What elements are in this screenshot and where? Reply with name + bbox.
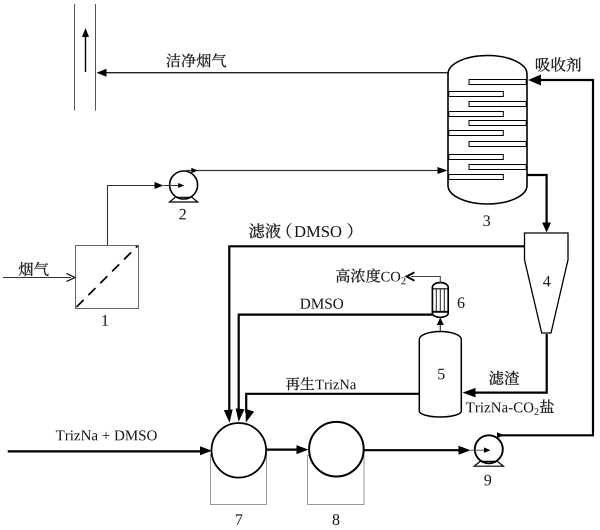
label 9 (484, 475, 491, 486)
wire: regenerated TrizNa from tank 5 to mixer 7 (246, 394, 420, 423)
wire: absorber 3 bottom to cyclone 4 (527, 175, 551, 233)
wire: fresh TrizNa+DMSO feed to mixer 7 (8, 446, 212, 455)
pump 9 base (474, 461, 503, 466)
wire: DMSO return from 6 to mixer 7 (236, 315, 433, 422)
absorber 3 internal baffles (449, 80, 526, 180)
wire: absorbent feed into absorber top (528, 75, 593, 436)
tank 5 (419, 332, 461, 418)
label 1 (102, 315, 108, 326)
wire: box 1 to blower 2 (108, 182, 164, 245)
label 6 (458, 297, 465, 308)
label 4 (543, 276, 550, 287)
wire: mixer 7 to mixer 8 (266, 445, 309, 454)
wire: flue gas inlet to box 1 (3, 274, 75, 282)
label 2 (179, 209, 185, 220)
wire: filtrate DMSO from cyclone 4 to mixer 7 (224, 246, 525, 422)
label TrizNa-CO2盐 (466, 399, 554, 414)
label 3 (483, 215, 490, 226)
mixer 7 support rect (211, 455, 267, 505)
label 5 (438, 369, 444, 380)
arrow up inside chimney (82, 28, 89, 72)
cyclone 4 (525, 233, 569, 333)
wire: cyclone 4 underflow to tank 5 (463, 334, 547, 397)
label 洁净烟气 (clean flue gas) (166, 53, 226, 67)
wire: clean flue gas from absorber 3 to stack (97, 69, 449, 77)
label 滤液（DMSO） (249, 223, 352, 238)
pretreater box 1 (76, 246, 139, 309)
wire: CO2 offgas from stripper 6 (407, 272, 441, 283)
label 7 (236, 514, 242, 524)
label 滤渣 (filter residue) (489, 371, 519, 385)
label 8 (333, 514, 340, 525)
pump 9 inlet stub with arrow (471, 447, 491, 453)
label 再生TrizNa (286, 377, 356, 390)
wire: tank 5 to stripper 6 (437, 318, 444, 332)
wire: pump 9 discharge to absorbent recycle (497, 432, 594, 438)
mixer 7 circle (212, 423, 267, 478)
label 烟气 (flue gas) (19, 262, 49, 276)
mixer 8 circle (309, 422, 364, 477)
absorber column 3 (448, 56, 527, 205)
pump 9 circle (475, 435, 503, 463)
label 高浓度CO2 (336, 268, 405, 284)
label 吸收剂 (absorbent) (536, 57, 581, 71)
chimney stack (75, 4, 96, 111)
stripper column 6 (432, 283, 448, 318)
blower 2 base (170, 197, 198, 202)
blower 2 circle (170, 171, 198, 199)
wire: blower 2 to absorber 3 (186, 167, 448, 174)
mixer 8 support rect (308, 456, 365, 505)
label DMSO (300, 299, 343, 309)
dashed diagonal of box 1 (77, 246, 138, 307)
blower 2 inlet stub with arrow (164, 183, 185, 188)
label TrizNa + DMSO (56, 430, 157, 440)
wire: mixer 8 to pump 9 (364, 446, 471, 455)
